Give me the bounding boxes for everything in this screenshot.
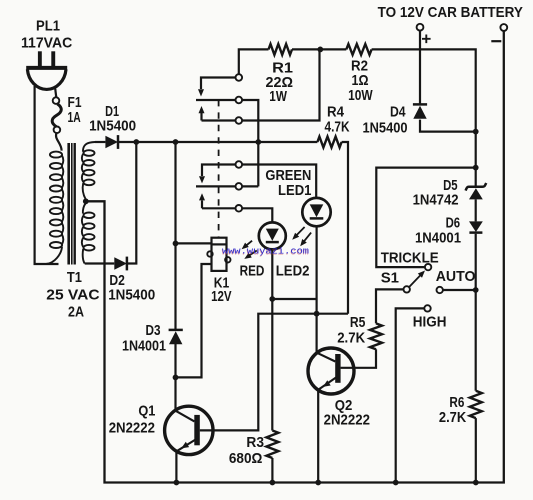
- wire D5 to D6: [475, 199, 477, 221]
- resistor R2 1ohm 10W: [346, 44, 373, 104]
- node K1 return / D3: [173, 375, 179, 381]
- svg-text:117VAC: 117VAC: [21, 34, 72, 51]
- diode D1 1N5400: [89, 103, 136, 149]
- transformer T1 secondary winding top half: [82, 142, 95, 200]
- node R1/R2 tap: [317, 47, 323, 53]
- svg-text:D4: D4: [390, 104, 406, 121]
- svg-text:R5: R5: [350, 314, 366, 331]
- node LED cathodes / R4 / Q2 collector: [314, 311, 320, 317]
- wire contact6 to LED2: [242, 208, 272, 222]
- node D3 branch: [173, 139, 179, 145]
- LED1 emission arrows: [292, 227, 311, 246]
- wire TRICKLE contact to rail: [376, 168, 475, 268]
- svg-text:TRICKLE: TRICKLE: [381, 250, 439, 267]
- wire fuse to primary top: [56, 132, 62, 150]
- transformer T1 secondary winding bottom half: [82, 203, 95, 264]
- switch S1 arm: [409, 271, 425, 288]
- wire R4 right down to LED node: [342, 142, 348, 314]
- wire R5 to Q2 base: [341, 349, 376, 368]
- node R6 at rail: [473, 480, 479, 486]
- svg-text:2.7K: 2.7K: [337, 330, 365, 347]
- wire D3 to Q1 collector: [174, 344, 176, 412]
- node Q2 emitter: [315, 480, 321, 486]
- watermark www.wuyazi.com: [222, 245, 310, 257]
- svg-text:Q1: Q1: [138, 402, 155, 419]
- relay contact 1: [236, 74, 243, 81]
- zener diode D5 1N4742 (bar on top with curled ends, triangle pointing up): [413, 177, 487, 209]
- node HIGH wire at rail: [393, 480, 399, 486]
- relay arm lower set1 with arrow: [199, 106, 236, 121]
- relay arm lower set2 with arrow: [199, 193, 235, 208]
- node K1 feed: [173, 241, 179, 247]
- svg-text:2N2222: 2N2222: [109, 420, 155, 437]
- resistor R5 2.7K: [337, 314, 382, 349]
- LED2 emission arrows: [242, 241, 257, 259]
- switch TRICKLE contact: [425, 264, 431, 270]
- svg-text:2A: 2A: [68, 303, 84, 320]
- wire top feed from contact 1: [239, 49, 269, 74]
- node LED join: [269, 296, 275, 302]
- diode D2 1N5400: [85, 142, 156, 304]
- wire Q1 emitter to rail: [175, 453, 177, 483]
- node AUTO branch: [473, 287, 479, 293]
- transformer T1 core: [69, 143, 75, 265]
- battery terminal plus: [417, 24, 431, 43]
- wire R2 to battery plus node: [372, 49, 476, 131]
- svg-text:1N5400: 1N5400: [89, 118, 136, 135]
- wire contact2 to common: [242, 100, 258, 186]
- svg-text:1N5400: 1N5400: [108, 287, 155, 304]
- svg-text:25 VAC: 25 VAC: [46, 287, 99, 304]
- wire D6 down to R6: [475, 234, 477, 391]
- svg-text:1N4742: 1N4742: [413, 192, 459, 209]
- wire rail D4 node down to D5: [475, 132, 477, 187]
- node D2 join: [133, 139, 139, 145]
- resistor R4 4.7K: [317, 104, 349, 148]
- wire center-tap to bottom rail and bottom rail to battery minus: [86, 31, 504, 483]
- svg-text:4.7K: 4.7K: [325, 119, 350, 136]
- node R3 bottom: [270, 480, 276, 486]
- relay coil K1 12V: [176, 238, 232, 305]
- resistor R3 680ohm: [229, 299, 279, 483]
- svg-text:S1: S1: [381, 270, 399, 287]
- transistor Q1 2N2222: [109, 402, 213, 454]
- svg-text:1N5400: 1N5400: [363, 120, 408, 137]
- wire contact3 to R1/R2 tap: [242, 49, 319, 120]
- node TRICKLE branch: [473, 165, 479, 171]
- wire D1 output line to R4: [119, 141, 318, 143]
- transformer T1 primary winding: [46, 152, 63, 264]
- wire S1 pole to R5: [376, 289, 404, 323]
- fuse F1 1A: [52, 94, 81, 133]
- T1 labels: [46, 269, 99, 320]
- svg-text:HIGH: HIGH: [413, 314, 447, 331]
- dashed mechanical link relay: [218, 100, 220, 238]
- switch AUTO contact and wire: [436, 268, 476, 293]
- svg-text:2N2222: 2N2222: [324, 412, 370, 429]
- svg-text:R3: R3: [246, 434, 264, 451]
- plug PL1 117VAC: [21, 18, 72, 90]
- relay pole bar set1: [196, 99, 235, 101]
- resistor R1 22ohm 1W: [266, 44, 294, 105]
- relay contact 2: [236, 97, 243, 104]
- relay pole bar set2: [196, 185, 235, 187]
- wire R1 to R2: [292, 48, 346, 50]
- LED2 red: [240, 222, 310, 279]
- battery terminal minus: [491, 24, 507, 41]
- node D4 to rail: [473, 129, 479, 135]
- svg-text:TO 12V CAR BATTERY: TO 12V CAR BATTERY: [378, 5, 523, 21]
- wire LED1 branch to LED2 node: [272, 298, 316, 300]
- wire Q2 collector up to LED node: [316, 314, 318, 353]
- wire contact5 to common: [242, 185, 258, 187]
- svg-text:1W: 1W: [269, 88, 287, 105]
- node relay common branch: [255, 139, 261, 145]
- wire LED1 cathode down: [316, 226, 318, 313]
- svg-text:www.wuyazi.com: www.wuyazi.com: [222, 245, 309, 256]
- svg-text:AUTO: AUTO: [436, 268, 476, 285]
- node Q1 emitter: [174, 480, 180, 486]
- transistor Q2 2N2222: [308, 348, 370, 429]
- svg-text:680Ω: 680Ω: [229, 450, 263, 467]
- relay contact 3: [236, 117, 243, 124]
- switch S1 pole contact: [404, 286, 410, 292]
- wire R6 to bottom rail: [475, 418, 477, 482]
- svg-text:T1: T1: [67, 269, 82, 286]
- diode D3 1N4001: [122, 322, 183, 355]
- switch HIGH contact and wire: [396, 305, 447, 482]
- wire K1 bottom terminal to D3 node: [176, 264, 212, 377]
- wire node to D3: [174, 142, 176, 330]
- diode D6 1N4001 (pointing down): [415, 215, 483, 247]
- svg-text:12V: 12V: [211, 288, 232, 305]
- relay arm upper set2 with arrow: [199, 165, 235, 184]
- svg-text:D3: D3: [146, 322, 161, 339]
- svg-text:PL1: PL1: [36, 18, 60, 35]
- relay contact 4: [236, 161, 243, 168]
- LED1 green: [265, 167, 330, 226]
- wire Q2 emitter to rail: [317, 390, 319, 482]
- relay arm upper set1 with arrow: [198, 78, 235, 97]
- svg-text:1N4001: 1N4001: [415, 230, 461, 247]
- svg-text:LED2: LED2: [276, 262, 310, 279]
- resistor R6 2.7K: [439, 391, 482, 426]
- svg-text:1N4001: 1N4001: [122, 338, 166, 355]
- svg-text:LED1: LED1: [278, 182, 311, 199]
- node center-tap of T1: [83, 198, 89, 204]
- wire LED2 cathode down to R3: [271, 249, 273, 299]
- svg-text:RED: RED: [240, 262, 265, 279]
- wire plug-right to fuse: [55, 89, 56, 98]
- relay contact 6: [236, 205, 243, 212]
- wire contact4 to LED1: [242, 165, 316, 198]
- wire LED node to Q1 base: [200, 314, 348, 431]
- svg-text:2.7K: 2.7K: [439, 409, 466, 426]
- svg-text:1A: 1A: [68, 109, 81, 126]
- wire plug-left down to primary bottom: [35, 86, 59, 264]
- diode D4 1N5400: [363, 30, 476, 136]
- relay contact 5: [236, 183, 243, 190]
- svg-text:10W: 10W: [348, 87, 373, 104]
